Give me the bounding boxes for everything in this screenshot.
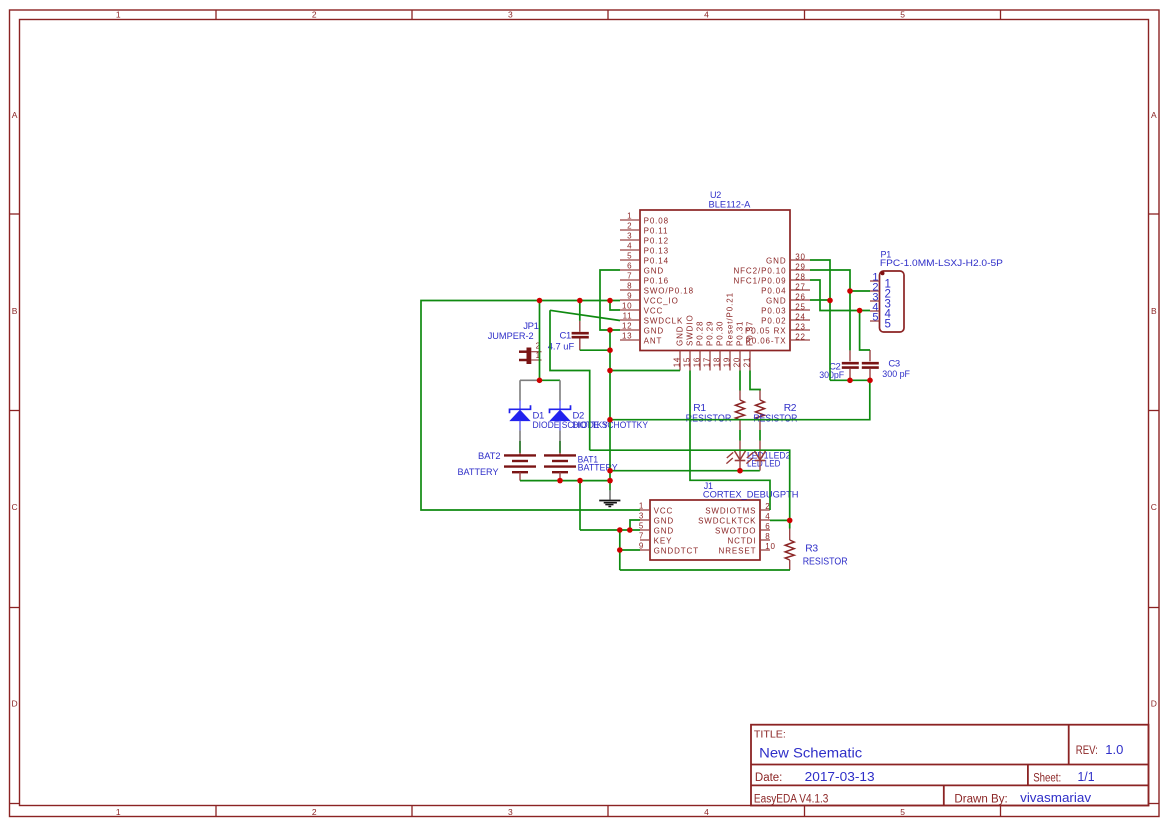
wire VCC: down to C1 top (579, 301, 581, 321)
LED2 labels: LED2 / LED (765, 450, 791, 469)
svg-text:9: 9 (639, 541, 644, 550)
wire GND: U2 pin26 stub (810, 299, 830, 301)
svg-text:P0.28: P0.28 (696, 321, 705, 346)
wire GND: C1 bottom (580, 349, 610, 351)
svg-text:3: 3 (508, 10, 513, 20)
svg-text:1: 1 (116, 10, 121, 20)
P1 pins 1-5 (lines) (870, 281, 880, 321)
wire (gray): D1 top lead (519, 380, 521, 400)
U2 bottom pin names (rotated) (676, 292, 755, 346)
svg-text:4: 4 (704, 807, 709, 817)
svg-text:CORTEX_DEBUGPTH: CORTEX_DEBUGPTH (703, 490, 799, 501)
wire SWDCLK: diagonal from U2 pin11 (550, 310, 620, 320)
capacitor C3 symbol (862, 350, 879, 380)
svg-text:VCC: VCC (654, 506, 674, 515)
wire: R2 to LED2 (759, 430, 761, 441)
svg-text:7: 7 (627, 272, 632, 281)
J1 left pins 1,3,5,7,9 (lines) (640, 510, 650, 550)
svg-text:1: 1 (627, 212, 632, 221)
svg-text:14: 14 (673, 357, 682, 367)
J1 right pin numbers (765, 502, 775, 551)
svg-text:P0.08: P0.08 (644, 216, 669, 225)
LED LED1 symbol (726, 441, 745, 471)
svg-text:SWDIO: SWDIO (686, 314, 695, 346)
svg-text:24: 24 (795, 312, 805, 321)
svg-text:GND: GND (676, 326, 685, 346)
svg-text:SWDCLK: SWDCLK (644, 316, 684, 325)
svg-text:2: 2 (312, 10, 317, 20)
wire (gray): diode top rail left (520, 379, 538, 381)
svg-text:17: 17 (703, 357, 712, 367)
svg-text:BLE112-A: BLE112-A (709, 200, 751, 210)
svg-text:GND: GND (644, 266, 664, 275)
svg-text:5: 5 (885, 318, 891, 330)
ground symbol (599, 481, 620, 507)
svg-text:REV:: REV: (1076, 745, 1098, 757)
junction (740,470.7) (737, 468, 743, 474)
junction (629.8,530) (627, 527, 633, 533)
wire GND: to U2 pin14 (610, 370, 680, 372)
wire GND: C2/C3 bottom rail (830, 379, 870, 381)
wire SWDCLK: LED anode rail to R3 top (590, 450, 790, 528)
wire: U2 pin21 to R2 (750, 371, 760, 391)
battery BAT2 symbol (504, 453, 536, 481)
svg-text:GNDDTCT: GNDDTCT (654, 546, 699, 555)
svg-text:EasyEDA V4.1.3: EasyEDA V4.1.3 (754, 793, 829, 805)
svg-text:SWDCLKTCK: SWDCLKTCK (698, 516, 756, 525)
svg-text:3: 3 (508, 807, 513, 817)
wire GND: battery rail drop (579, 481, 581, 530)
svg-text:C: C (1151, 502, 1157, 512)
svg-text:23: 23 (795, 322, 805, 331)
svg-text:13: 13 (622, 332, 632, 341)
wire GND: LED cathode rail (610, 470, 760, 472)
svg-text:VCC: VCC (644, 306, 664, 315)
svg-text:5: 5 (900, 10, 905, 20)
svg-text:21: 21 (743, 357, 752, 367)
junction (610,350.2) (607, 347, 613, 353)
wire (gray): D2 bottom lead (559, 430, 561, 441)
U2 right pins 22-30 (lines) (790, 260, 810, 340)
BAT2 labels: BAT2 / BATTERY (458, 451, 501, 478)
svg-text:8: 8 (765, 532, 770, 541)
svg-text:6: 6 (765, 522, 770, 531)
junction (859.6,310.5) (857, 308, 863, 314)
wire GND: battery bottom rail (520, 480, 610, 482)
svg-text:8: 8 (627, 282, 632, 291)
svg-text:28: 28 (795, 272, 805, 281)
svg-text:1: 1 (116, 807, 121, 817)
svg-text:TITLE:: TITLE: (754, 729, 786, 740)
resistor R2 symbol (756, 391, 765, 431)
svg-text:P0.16: P0.16 (644, 276, 669, 285)
svg-text:R2: R2 (784, 403, 797, 414)
svg-text:NFC2/P0.10: NFC2/P0.10 (733, 266, 786, 275)
LED1 labels: LED1 / LED (747, 450, 769, 469)
svg-text:LED: LED (765, 458, 781, 469)
svg-text:BATTERY: BATTERY (458, 467, 500, 478)
svg-text:10: 10 (765, 542, 775, 551)
title block (751, 725, 1149, 806)
svg-text:GND: GND (766, 296, 786, 305)
svg-text:4.7 uF: 4.7 uF (548, 342, 575, 353)
svg-text:16: 16 (693, 357, 702, 367)
J1 reference labels (703, 481, 799, 501)
C3 labels: C3 / 300 pF (882, 359, 910, 380)
wire SWDIO: U2 pin15 to J1 pin2 (690, 371, 770, 511)
svg-text:10: 10 (622, 302, 632, 311)
svg-text:1.0: 1.0 (1105, 742, 1123, 757)
wire GND: main vertical (609, 330, 611, 481)
diode D2 DIODE SCHOTTKY symbol (550, 401, 571, 431)
wire GND: bottom rail to R3 (620, 569, 790, 571)
svg-text:NFC1/P0.09: NFC1/P0.09 (733, 276, 786, 285)
svg-text:GND: GND (654, 516, 674, 525)
J1 left pin names (654, 506, 699, 555)
wire NFC2: U2 pin29 to P1 pin2 (810, 270, 870, 291)
wire SWDCLK: down-right-down (550, 310, 590, 450)
P1 pad numbers (blue) (885, 278, 892, 330)
svg-text:P0.02: P0.02 (761, 316, 786, 325)
junction (539.5,300.5) (537, 298, 543, 304)
wire VCC: U2 pin10 jog (610, 301, 620, 311)
svg-text:SWDIOTMS: SWDIOTMS (705, 506, 756, 515)
JP1 labels (488, 321, 539, 342)
U2 reference labels (709, 190, 751, 210)
svg-text:P0.11: P0.11 (644, 226, 669, 235)
svg-text:RESISTOR: RESISTOR (803, 557, 848, 568)
svg-text:NCTDI: NCTDI (727, 536, 756, 545)
wire GND: across to C2/C3 bottom (610, 380, 870, 419)
svg-text:JUMPER-2: JUMPER-2 (488, 331, 534, 342)
svg-text:SWOTDO: SWOTDO (715, 526, 756, 535)
connector J1 CORTEX_DEBUGPTH body (650, 500, 760, 560)
resistor R1 symbol (736, 391, 745, 431)
junction (560,480.6) (557, 478, 563, 484)
J1 right pins 2,4,6,8,10 (lines) (760, 510, 770, 550)
svg-text:9: 9 (627, 292, 632, 301)
junction (610,470.7) (607, 468, 613, 474)
diode D1 DIODE SCHOTTKY symbol (510, 401, 531, 431)
wire NFC1: U2 pin28 to P1 pin4 (810, 280, 870, 311)
wire (gray): D1 bottom lead (519, 430, 521, 441)
svg-text:Drawn By:: Drawn By: (954, 794, 1007, 806)
svg-text:11: 11 (623, 312, 633, 321)
junction (870,380.3) (867, 378, 873, 384)
svg-text:4: 4 (765, 512, 770, 521)
U2 bottom pins 14-21 (lines) (680, 351, 750, 371)
wire NFC2: down to C2 top (849, 291, 851, 350)
junction (619.8,550) (617, 547, 623, 553)
svg-text:P0.31: P0.31 (736, 321, 745, 346)
svg-text:Date:: Date: (755, 772, 783, 784)
svg-text:GND: GND (654, 526, 674, 535)
svg-text:P0.14: P0.14 (644, 256, 669, 265)
svg-text:GND: GND (766, 256, 786, 265)
svg-text:Reset/P0.21: Reset/P0.21 (726, 292, 735, 346)
svg-text:7: 7 (639, 531, 644, 540)
wire GND: U2 pin6 to pin12 (600, 270, 620, 330)
junction (610,370.5) (607, 368, 613, 374)
svg-text:P0.04: P0.04 (761, 286, 786, 295)
junction (830,300.4) (827, 298, 833, 304)
svg-text:ANT: ANT (644, 336, 663, 345)
junction (619.8,530) (617, 527, 623, 533)
svg-text:R1: R1 (693, 403, 706, 414)
junction (850,291) (847, 288, 853, 294)
wire VCC: U2 pin9 - left loop - J1 pin1 (421, 301, 640, 511)
wire GND: jog to J1 pin3 (630, 520, 640, 530)
svg-text:C: C (12, 502, 18, 512)
svg-text:5: 5 (872, 312, 878, 324)
svg-text:27: 27 (795, 282, 805, 291)
P1 reference labels (880, 250, 1003, 269)
svg-text:18: 18 (713, 357, 722, 367)
R2 labels: R2 / RESISTOR (753, 403, 797, 425)
svg-text:1: 1 (639, 501, 644, 510)
junction (610,419.7) (607, 417, 613, 423)
svg-text:12: 12 (622, 322, 632, 331)
svg-text:300 pF: 300 pF (882, 369, 910, 380)
wire NFC1: jog to C3 top (860, 311, 870, 351)
wire (gray): D2 top lead (559, 380, 561, 400)
R1 labels: R1 / RESISTOR (686, 403, 732, 425)
svg-text:D: D (1151, 699, 1157, 709)
svg-text:20: 20 (733, 357, 742, 367)
svg-text:2017-03-13: 2017-03-13 (805, 769, 875, 784)
capacitor C2 symbol (842, 350, 859, 380)
svg-text:A: A (12, 110, 18, 120)
D2 labels: D2 / DIODE SCHOTTKY (573, 411, 649, 432)
svg-text:26: 26 (795, 292, 805, 301)
wire VCC: down to diode tops (539, 301, 541, 381)
svg-text:1/1: 1/1 (1078, 769, 1095, 784)
svg-text:BAT2: BAT2 (478, 451, 501, 462)
svg-text:D: D (12, 699, 18, 709)
U2 right pin numbers 22-30 (795, 252, 805, 341)
wire SWDCLK: J1 pin4 stub (770, 519, 790, 521)
svg-text:2: 2 (312, 807, 317, 817)
svg-text:30: 30 (795, 252, 805, 261)
svg-text:B: B (12, 306, 18, 316)
battery BAT1 symbol (544, 453, 576, 481)
svg-text:U2: U2 (710, 190, 721, 200)
svg-text:vivasmariav: vivasmariav (1020, 790, 1092, 805)
svg-text:25: 25 (795, 302, 805, 311)
svg-text:Sheet:: Sheet: (1033, 772, 1061, 784)
svg-text:SWO/P0.18: SWO/P0.18 (644, 286, 694, 295)
svg-text:VCC_IO: VCC_IO (644, 296, 679, 305)
J1 left pin numbers (639, 501, 644, 550)
svg-text:C1: C1 (560, 331, 571, 342)
svg-text:4: 4 (704, 10, 709, 20)
svg-text:GND: GND (644, 326, 664, 335)
wire: diode top rail right (538, 379, 560, 381)
svg-text:B: B (1151, 306, 1157, 316)
capacitor C1 symbol (572, 321, 589, 350)
junction (610,300.5) (607, 298, 613, 304)
svg-text:3: 3 (639, 511, 644, 520)
svg-text:22: 22 (795, 332, 805, 341)
connector P1 FPC-1.0MM-LSXJ-H2.0-5P body (880, 271, 905, 332)
junction (539.5,380.3) (537, 378, 543, 384)
junction (579.8,300.5) (577, 298, 583, 304)
junction (850,380.3) (847, 378, 853, 384)
wire GND: to J1 pin5 (580, 529, 640, 531)
svg-text:P0.03: P0.03 (761, 306, 786, 315)
R3 labels: R3 / RESISTOR (803, 544, 848, 568)
svg-text:P0.12: P0.12 (644, 236, 669, 245)
svg-text:5: 5 (639, 521, 644, 530)
U2 left pins 1-13 (lines) (620, 220, 640, 340)
svg-text:2: 2 (627, 222, 632, 231)
svg-text:New Schematic: New Schematic (759, 745, 862, 761)
U2 left pin names (644, 216, 694, 345)
svg-text:6: 6 (627, 262, 632, 271)
junction (580,480.6) (577, 478, 583, 484)
op U2 BLE112-A body (640, 210, 790, 351)
svg-text:300pF: 300pF (819, 370, 844, 381)
D1 labels: D1 / DIODE SCHOTTKY (533, 411, 609, 432)
junction (610,480.6) (607, 478, 613, 484)
U2 right pin names (733, 256, 786, 345)
C1 labels: C1 / 4.7 uF (548, 331, 575, 353)
svg-text:NRESET: NRESET (719, 546, 757, 555)
wire: R1 to LED1 (739, 430, 741, 441)
wire GND: U2 pin30 down (810, 260, 830, 380)
P1 pin numbers (outer, blue) (872, 272, 878, 324)
svg-text:P0.37: P0.37 (746, 321, 755, 346)
wire: D2 to BAT1 (559, 441, 561, 453)
BAT1 labels: BAT1 / BATTERY (578, 455, 619, 474)
resistor R3 symbol (785, 529, 794, 571)
wire GND: to J1 pin9 (620, 549, 640, 551)
U2 bottom pin numbers 14-21 (rotated) (673, 357, 752, 367)
svg-text:5: 5 (627, 252, 632, 261)
svg-text:P0.29: P0.29 (706, 321, 715, 346)
jumper JP1 JUMPER-2 symbol (519, 348, 542, 365)
C2 labels: C2 / 300pF (819, 361, 844, 381)
wire: U2 pin20 to R1 (739, 371, 741, 391)
svg-text:19: 19 (723, 357, 732, 367)
svg-text:KEY: KEY (654, 536, 673, 545)
U2 left pin numbers 1-13 (622, 212, 632, 341)
junction (610,330) (607, 327, 613, 333)
svg-text:29: 29 (795, 262, 805, 271)
wire: D1 to BAT2 (519, 441, 521, 453)
JP1 pin numbers 2,1 (536, 341, 541, 360)
J1 right pin names (698, 506, 756, 555)
svg-text:15: 15 (683, 357, 692, 367)
LED LED2 symbol (746, 441, 765, 471)
svg-text:P0.30: P0.30 (716, 321, 725, 346)
svg-text:P0.13: P0.13 (644, 246, 669, 255)
P1 pin-1 marker dot (881, 271, 885, 275)
svg-text:A: A (1151, 110, 1157, 120)
svg-text:5: 5 (900, 807, 905, 817)
svg-text:3: 3 (627, 232, 632, 241)
svg-text:4: 4 (627, 242, 632, 251)
wire GND: drop at J1 left (619, 530, 621, 570)
svg-text:FPC-1.0MM-LSXJ-H2.0-5P: FPC-1.0MM-LSXJ-H2.0-5P (880, 258, 1003, 269)
junction (789.7,520.4) (787, 518, 793, 524)
svg-text:R3: R3 (805, 544, 818, 555)
